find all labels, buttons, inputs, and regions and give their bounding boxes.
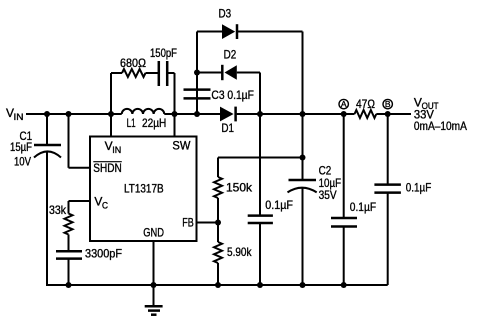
capacitor 0.1uF (D2 output) [248, 198, 293, 223]
resistor 150k [214, 177, 253, 198]
node junction [108, 111, 114, 117]
capacitor C2 [288, 164, 342, 203]
resistor 680R [111, 56, 146, 77]
node junction [257, 111, 263, 117]
resistor 33k [49, 203, 73, 235]
svg-text:GND: GND [143, 226, 164, 240]
svg-text:5.90k: 5.90k [227, 245, 252, 259]
svg-text:47Ω: 47Ω [356, 97, 375, 111]
diode D3 [219, 7, 238, 39]
wire [387, 114, 389, 185]
wire [167, 72, 174, 74]
svg-text:150k: 150k [226, 180, 253, 194]
wire [68, 235, 70, 252]
wire [259, 73, 261, 216]
svg-text:150pF: 150pF [150, 46, 177, 60]
wire [68, 114, 70, 168]
wire [259, 223, 261, 285]
wire [197, 72, 222, 74]
node VOUT label [414, 95, 467, 133]
svg-text:L1: L1 [127, 116, 136, 130]
node VIN input label [6, 106, 24, 122]
node junction [194, 111, 200, 117]
wire [164, 113, 220, 115]
svg-text:B: B [385, 99, 391, 109]
wire [387, 193, 389, 285]
wire [302, 32, 304, 181]
node junction [44, 111, 50, 117]
svg-text:FB: FB [182, 215, 194, 229]
capacitor 3300pF [56, 246, 122, 260]
node junction [215, 282, 221, 288]
svg-text:D1: D1 [221, 121, 234, 135]
wire [237, 72, 260, 74]
wire [376, 113, 411, 115]
svg-text:D3: D3 [219, 7, 232, 21]
wire [46, 114, 48, 145]
svg-text:D2: D2 [224, 47, 237, 61]
svg-text:C: C [102, 201, 108, 211]
ground [145, 285, 163, 315]
node junction [66, 111, 72, 117]
svg-text:0.1µF: 0.1µF [406, 181, 432, 195]
wire [237, 113, 355, 115]
wire [218, 157, 303, 159]
node B terminal [383, 99, 392, 109]
wire [197, 222, 219, 224]
capacitor 0.1uF (node B) [374, 181, 431, 195]
node junction [151, 282, 157, 288]
svg-text:0.1µF: 0.1µF [350, 200, 376, 214]
wire [343, 227, 345, 286]
node junction [385, 111, 391, 117]
svg-text:33k: 33k [49, 203, 67, 217]
node junction [300, 155, 306, 161]
wire [69, 200, 91, 202]
node A terminal [339, 99, 348, 109]
resistor 5.90k [214, 242, 252, 263]
diode D1 [220, 107, 236, 136]
svg-text:SHDN: SHDN [93, 161, 122, 175]
wire [146, 72, 159, 74]
wire [343, 114, 345, 218]
svg-text:15µF: 15µF [10, 140, 32, 154]
wire [217, 158, 219, 178]
svg-text:C3 0.1µF: C3 0.1µF [211, 88, 254, 102]
wire [153, 241, 155, 285]
wire [68, 201, 70, 214]
node junction [66, 282, 72, 288]
resistor 47R [355, 97, 377, 118]
node junction [300, 282, 306, 288]
svg-text:22µH: 22µH [142, 116, 166, 130]
op-amp U1 LT1317B [90, 137, 197, 242]
wire [302, 187, 304, 285]
wire [238, 31, 303, 33]
svg-text:0.1µF: 0.1µF [265, 198, 293, 212]
svg-text:A: A [341, 99, 347, 109]
node junction [215, 220, 221, 226]
svg-text:LT1317B: LT1317B [124, 182, 164, 196]
wire [26, 113, 122, 115]
wire [196, 32, 198, 115]
wire [197, 31, 222, 33]
svg-text:3300pF: 3300pF [85, 246, 122, 260]
svg-text:10V: 10V [14, 155, 31, 169]
svg-text:IN: IN [14, 112, 24, 122]
wire [110, 73, 112, 137]
capacitor C3 [184, 88, 254, 102]
wire [174, 73, 176, 137]
svg-text:0mA–10mA: 0mA–10mA [414, 119, 467, 133]
node junction [341, 282, 347, 288]
svg-text:IN: IN [112, 145, 121, 155]
inductor L1 [122, 109, 167, 130]
node junction [300, 111, 306, 117]
wire [46, 284, 388, 286]
capacitor C1 [10, 129, 61, 169]
wire [217, 263, 219, 285]
diode D2 [222, 47, 237, 80]
wire [68, 259, 70, 285]
svg-text:35V: 35V [319, 188, 337, 202]
node junction [194, 70, 200, 76]
wire [46, 152, 48, 286]
wire [69, 167, 91, 169]
svg-text:SW: SW [172, 138, 191, 152]
node junction [341, 111, 347, 117]
capacitor 150pF [150, 46, 177, 86]
capacitor 0.1uF (node A) [331, 200, 376, 227]
node junction [257, 282, 263, 288]
node junction [172, 111, 178, 117]
wire [217, 198, 219, 242]
svg-text:680Ω: 680Ω [120, 56, 146, 70]
